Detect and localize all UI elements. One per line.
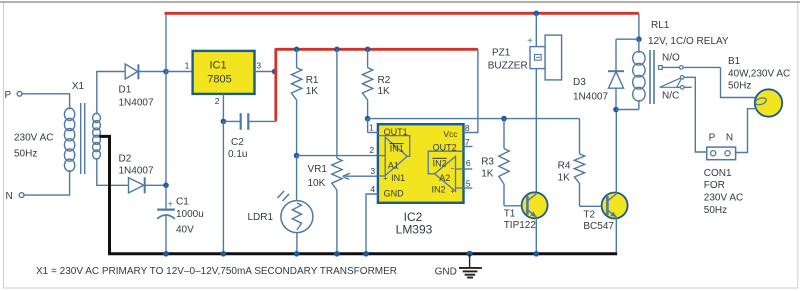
- wire buzzer to T1 collector: [535, 69, 537, 195]
- svg-text:BC547: BC547: [583, 221, 614, 232]
- label C2 0.1u: [228, 137, 247, 160]
- resistor R2 1K: [362, 49, 372, 118]
- junction T1/ground: [534, 251, 540, 257]
- svg-text:OUT1: OUT1: [384, 127, 408, 137]
- node 5V/VR1: [334, 47, 340, 53]
- junction C2/ground: [221, 251, 227, 257]
- comparator output rail: [368, 118, 580, 120]
- svg-text:10K: 10K: [308, 178, 326, 189]
- svg-text:N: N: [6, 191, 13, 202]
- resistor R1 1K: [291, 49, 301, 155]
- svg-text:P: P: [709, 133, 716, 144]
- node D1/D2 rectifier output: [163, 69, 169, 75]
- svg-text:FOR: FOR: [704, 180, 725, 191]
- svg-text:IN1: IN1: [391, 173, 405, 183]
- transformer X1 core: [81, 103, 85, 174]
- IC2 pin7 stub: [464, 137, 473, 147]
- label R2 1K: [378, 75, 391, 97]
- IC2 pin1 stub: [368, 123, 378, 133]
- label B1 40W 230V AC 50Hz: [728, 56, 790, 92]
- svg-text:D2: D2: [119, 154, 132, 165]
- svg-text:X1 = 230V AC PRIMARY TO 12V–0–: X1 = 230V AC PRIMARY TO 12V–0–12V,750mA …: [36, 266, 397, 277]
- label VR1 10K: [308, 164, 328, 189]
- caption: [36, 266, 397, 277]
- label R4 1K: [558, 161, 571, 184]
- svg-text:IN1: IN1: [390, 144, 404, 154]
- svg-text:1000u: 1000u: [176, 209, 204, 220]
- wire D2 cathode to node: [145, 184, 166, 186]
- svg-text:230V AC: 230V AC: [704, 193, 743, 204]
- svg-text:R4: R4: [558, 161, 571, 172]
- svg-text:PZ1: PZ1: [492, 47, 511, 58]
- node OUT rail/R3: [501, 116, 507, 122]
- transistor T1 TIP122: [522, 192, 548, 218]
- svg-text:12V, 1C/O RELAY: 12V, 1C/O RELAY: [648, 36, 729, 47]
- node C2/pin2: [221, 119, 227, 125]
- svg-text:7805: 7805: [207, 73, 231, 85]
- svg-text:6: 6: [466, 158, 471, 168]
- wire R3 to T1 base: [504, 205, 527, 207]
- labels P N: [709, 133, 733, 144]
- label PZ1 BUZZER: [488, 47, 528, 71]
- wire node to C1: [165, 185, 167, 209]
- label D1 1N4007: [119, 85, 154, 109]
- wire relay bottom: [616, 109, 639, 111]
- preset VR1 10K: [332, 49, 342, 254]
- VR1 wiper arrow: [343, 173, 378, 179]
- buzzer PZ1: [530, 35, 562, 80]
- label D3 1N4007: [573, 77, 608, 103]
- node 5V/R2: [365, 47, 371, 53]
- relay pole arm: [660, 76, 684, 88]
- svg-text:+: +: [451, 189, 455, 196]
- wire T2 collector: [615, 110, 617, 195]
- svg-text:T2: T2: [583, 209, 595, 220]
- node +12V/buzzer: [534, 11, 540, 17]
- svg-text:0.1u: 0.1u: [228, 149, 247, 160]
- svg-text:N/O: N/O: [662, 53, 680, 64]
- svg-text:CON1: CON1: [704, 168, 732, 179]
- node 5V/R1: [294, 47, 300, 53]
- wire R1 node to LDR1: [296, 156, 298, 201]
- node relay top: [636, 36, 642, 42]
- svg-text:C2: C2: [231, 137, 244, 148]
- capacitor C2: [223, 113, 275, 130]
- svg-text:RL1: RL1: [651, 20, 670, 31]
- svg-text:40W,230V AC: 40W,230V AC: [728, 69, 790, 80]
- svg-text:TIP122: TIP122: [504, 220, 537, 231]
- diode D1: [125, 64, 138, 79]
- svg-text:R1: R1: [306, 75, 319, 86]
- resistor R4 1K: [574, 119, 584, 207]
- label R1 1K: [306, 75, 319, 97]
- svg-text:3: 3: [256, 61, 261, 71]
- svg-text:1N4007: 1N4007: [119, 98, 154, 109]
- label T1 TIP122: [504, 208, 537, 231]
- label 230V AC 50Hz: [14, 133, 53, 160]
- relay N/O contact: [659, 66, 721, 70]
- svg-text:1N4007: 1N4007: [573, 92, 608, 103]
- terminal P: [5, 90, 23, 101]
- svg-text:4: 4: [370, 184, 375, 194]
- regulator IC1 7805: [193, 51, 255, 94]
- relay N/C contact: [677, 86, 692, 90]
- wire secondary top to D1: [97, 72, 125, 115]
- LDR1: [278, 191, 313, 233]
- transformer X1 secondary winding: [93, 113, 101, 159]
- wire T1 emitter to ground: [535, 217, 537, 254]
- connector CON1: [707, 147, 736, 160]
- wire T2 emitter to ground: [615, 217, 617, 253]
- label C1 1000u 40V: [176, 197, 204, 236]
- diode D2: [129, 177, 145, 193]
- svg-text:GND: GND: [384, 189, 405, 199]
- node R2/OUT1: [365, 116, 371, 122]
- label R3 1K: [481, 157, 494, 180]
- svg-text:X1: X1: [72, 81, 85, 92]
- node R1/LDR1: [294, 153, 300, 159]
- svg-text:1: 1: [369, 123, 374, 133]
- diode D3: [608, 39, 624, 109]
- svg-text:1N4007: 1N4007: [119, 166, 154, 177]
- junction VR1/ground: [334, 251, 340, 257]
- wire IC1 pin2: [215, 94, 224, 122]
- label LDR1: [248, 212, 274, 223]
- svg-text:50Hz: 50Hz: [14, 149, 37, 160]
- label N/C: [662, 91, 679, 102]
- junction ground bus/GND: [467, 251, 473, 257]
- label N/O: [662, 53, 680, 64]
- svg-text:IN2: IN2: [432, 184, 446, 194]
- wire +12V to relay: [638, 13, 640, 39]
- svg-text:3: 3: [370, 166, 375, 176]
- svg-text:A1: A1: [388, 160, 399, 170]
- wire bulb to CON1 N: [736, 109, 757, 153]
- IC2 pin6 stub: [464, 158, 473, 169]
- wire P to X1 primary top: [22, 94, 70, 110]
- IC2 pin name labels: [384, 127, 459, 199]
- node IC1 pin3: [272, 69, 278, 75]
- comparator IC2 box: [378, 124, 464, 203]
- svg-text:T1: T1: [504, 208, 516, 219]
- wire IC1 pin3: [255, 61, 276, 72]
- label D2 1N4007: [119, 154, 154, 177]
- label RL1: [651, 20, 670, 31]
- svg-text:+: +: [167, 200, 173, 211]
- svg-text:OUT2: OUT2: [433, 142, 457, 152]
- svg-text:N: N: [726, 133, 733, 144]
- node D2/C1: [163, 183, 169, 189]
- ground GND: [435, 254, 482, 278]
- wire R4 to T2 base: [580, 205, 608, 207]
- svg-text:8: 8: [465, 123, 470, 133]
- svg-text:A2: A2: [439, 173, 450, 183]
- svg-text:Vcc: Vcc: [443, 129, 458, 139]
- svg-text:IN2: IN2: [433, 158, 447, 168]
- svg-text:BUZZER: BUZZER: [488, 60, 528, 71]
- svg-text:B1: B1: [728, 56, 741, 67]
- svg-text:P: P: [5, 90, 12, 101]
- wire D1 cathode to node: [138, 71, 166, 73]
- wire N/O to bulb: [721, 67, 758, 97]
- svg-text:1K: 1K: [306, 86, 319, 97]
- node relay bottom: [613, 107, 619, 113]
- svg-text:2: 2: [215, 96, 220, 106]
- relay core: [650, 50, 654, 104]
- IC2 pin5 stub: [464, 178, 473, 188]
- svg-text:50Hz: 50Hz: [704, 205, 727, 216]
- svg-text:1K: 1K: [481, 169, 494, 180]
- transformer X1 primary winding: [64, 108, 74, 171]
- junction IC2 GND/ground bus: [363, 251, 369, 257]
- svg-text:1K: 1K: [378, 86, 391, 97]
- wire rectifier node vertical: [165, 13, 167, 185]
- wire C2 node to ground: [222, 121, 224, 253]
- resistor R3 1K: [499, 119, 509, 206]
- svg-text:5: 5: [466, 178, 471, 188]
- IC2 pin3 label: [370, 166, 375, 176]
- 5V red vertical: [274, 48, 277, 121]
- bulb B1: [755, 89, 783, 116]
- 5V rail (red): [276, 48, 478, 51]
- wire secondary bottom to D2: [97, 158, 129, 185]
- svg-text:IC1: IC1: [209, 59, 226, 71]
- wire OUT rail to IC2 pin1: [367, 119, 369, 133]
- IC2 pin2 label: [369, 145, 374, 155]
- label T2 BC547: [583, 209, 614, 232]
- wire divider to IC2 pin2: [297, 155, 378, 157]
- svg-text:7: 7: [465, 137, 470, 147]
- +12V rail (red): [165, 12, 639, 15]
- junction LDR1/ground: [294, 251, 300, 257]
- svg-text:LDR1: LDR1: [248, 212, 274, 223]
- label X1: [72, 81, 85, 92]
- capacitor C1 (electrolytic): [157, 200, 175, 219]
- wire relay top to D3: [616, 38, 639, 40]
- svg-text:1: 1: [185, 61, 190, 71]
- svg-text:VR1: VR1: [308, 164, 328, 175]
- IC2 pin8 stub to 5V: [464, 49, 478, 133]
- svg-text:GND: GND: [435, 266, 457, 277]
- wire rail to buzzer: [527, 13, 536, 47]
- IC2 pin4 stub: [366, 184, 378, 254]
- svg-text:−: −: [450, 166, 454, 173]
- junction C1/ground: [163, 251, 169, 257]
- svg-text:R3: R3: [481, 157, 494, 168]
- wire C1 to ground: [165, 216, 167, 254]
- op-amp A1: [378, 136, 410, 183]
- svg-text:50Hz: 50Hz: [728, 81, 751, 92]
- transistor T2 BC547: [602, 193, 628, 219]
- svg-text:C1: C1: [176, 197, 189, 208]
- svg-text:1K: 1K: [558, 173, 571, 184]
- svg-text:+: +: [383, 174, 388, 183]
- svg-text:230V AC: 230V AC: [14, 133, 53, 144]
- wire center tap (black): [100, 136, 110, 253]
- label 12V 1C/O RELAY: [648, 36, 729, 47]
- svg-text:N/C: N/C: [662, 91, 679, 102]
- svg-text:D1: D1: [119, 85, 132, 96]
- wire N to X1 primary bottom: [24, 170, 70, 195]
- wire LDR1 to ground: [296, 233, 298, 254]
- label CON1 FOR 230V AC 50Hz: [704, 168, 743, 216]
- svg-text:LM393: LM393: [396, 222, 433, 236]
- svg-text:40V: 40V: [176, 224, 194, 235]
- label IC2 LM393: [396, 210, 433, 236]
- svg-text:2: 2: [369, 145, 374, 155]
- svg-text:+: +: [527, 36, 533, 47]
- wire pole to CON1 P: [684, 77, 707, 152]
- terminal N: [6, 191, 25, 202]
- svg-text:D3: D3: [573, 77, 586, 88]
- wire node to IC1 pin1: [166, 61, 193, 72]
- svg-text:R2: R2: [378, 75, 391, 86]
- ground bus (black): [108, 252, 617, 255]
- relay RL1 coil: [633, 39, 645, 109]
- op-amp A2: [428, 151, 463, 195]
